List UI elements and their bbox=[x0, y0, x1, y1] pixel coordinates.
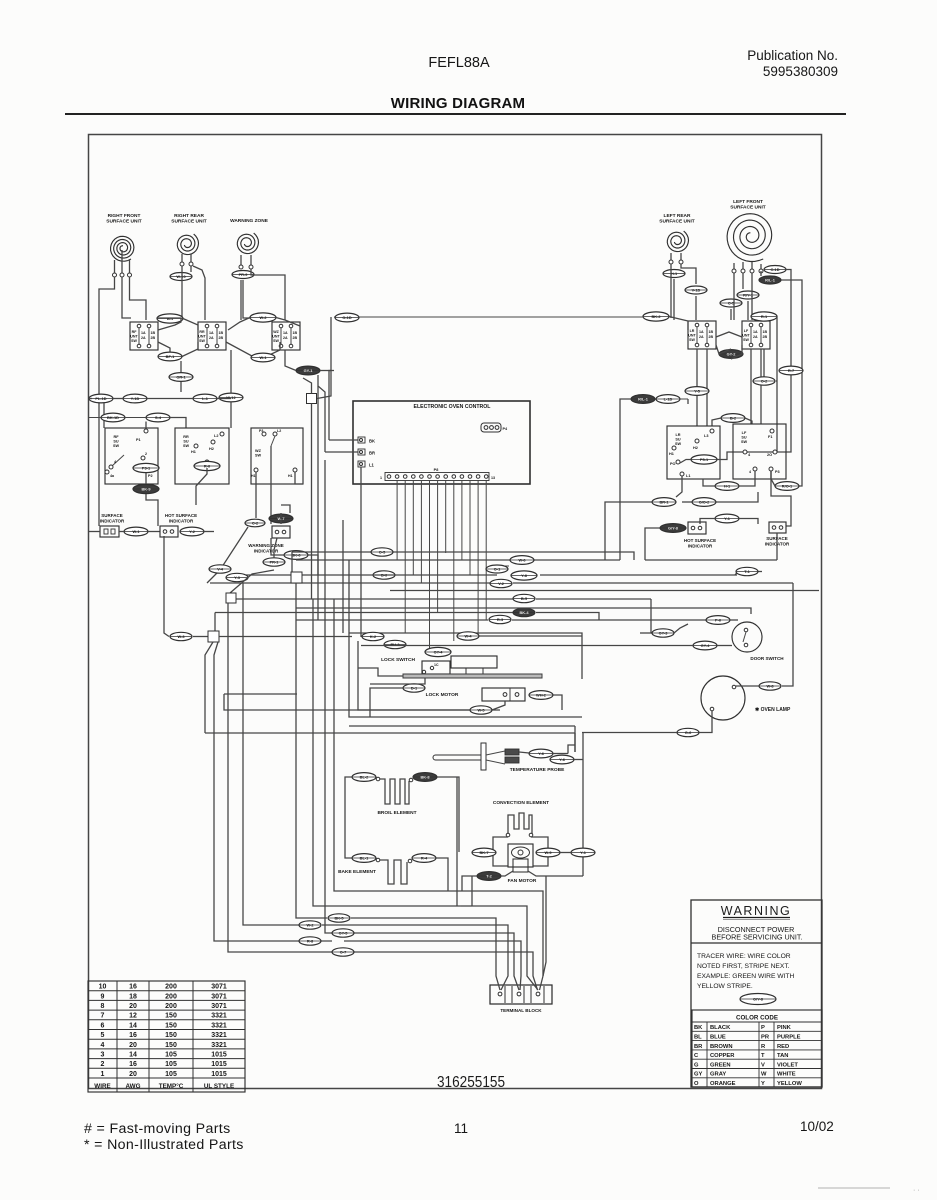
svg-text:OR-1: OR-1 bbox=[176, 375, 186, 380]
svg-text:L-1D: L-1D bbox=[664, 397, 673, 402]
svg-text:SW: SW bbox=[183, 444, 190, 448]
svg-text:L-1: L-1 bbox=[202, 396, 209, 401]
wire junction311 up bbox=[303, 378, 312, 394]
svg-text:G-1: G-1 bbox=[494, 567, 501, 572]
wire GO-2 path bbox=[682, 501, 692, 503]
EOC BK terminal bbox=[358, 437, 365, 443]
wire rhsi left bbox=[645, 528, 660, 560]
svg-text:SURFACE UNIT: SURFACE UNIT bbox=[106, 219, 142, 225]
svg-text:C-1D: C-1D bbox=[770, 267, 779, 272]
connector Y-6b bbox=[550, 755, 574, 764]
connector G-6 bbox=[677, 728, 699, 736]
svg-text:BROWN: BROWN bbox=[710, 1044, 733, 1050]
svg-text:R/L-1: R/L-1 bbox=[765, 278, 776, 283]
wire diag WZI-B bbox=[230, 570, 274, 593]
svg-text:BL-1: BL-1 bbox=[360, 856, 369, 861]
svg-text:200: 200 bbox=[165, 1003, 177, 1010]
svg-text:10: 10 bbox=[99, 984, 107, 991]
wire bowtie RR-WZ bottom bbox=[226, 342, 252, 358]
wire broil left bbox=[345, 777, 352, 851]
svg-text:1: 1 bbox=[101, 1071, 105, 1078]
svg-text:1B: 1B bbox=[293, 331, 298, 335]
svg-text:R-7: R-7 bbox=[788, 368, 794, 373]
wire lock motor bottom bbox=[492, 701, 505, 710]
RF SU SW label bbox=[113, 435, 120, 448]
svg-text:ELECTRONIC OVEN CONTROL: ELECTRONIC OVEN CONTROL bbox=[414, 404, 492, 410]
left rear surface unit label bbox=[659, 213, 695, 225]
svg-text:SURFACE: SURFACE bbox=[101, 513, 123, 518]
switch box RR SU SW bbox=[175, 428, 229, 484]
connector BK-7 bbox=[472, 848, 496, 857]
connector bottom row952 bbox=[332, 948, 354, 956]
svg-text:SU: SU bbox=[675, 438, 681, 442]
surface coil RF bbox=[111, 236, 134, 261]
svg-text:HOT SURFACE: HOT SURFACE bbox=[165, 513, 197, 518]
wire junction311 down bbox=[311, 404, 313, 600]
left front surface unit label bbox=[730, 199, 766, 211]
wire gauge table bbox=[88, 981, 245, 1092]
svg-text:11: 11 bbox=[454, 1121, 468, 1136]
svg-text:RF: RF bbox=[113, 435, 119, 439]
svg-text:BK-1D: BK-1D bbox=[107, 415, 119, 420]
connector C-2 bbox=[245, 519, 265, 527]
wire bowtie LR-LF bbox=[716, 332, 742, 337]
wire band h620 bbox=[296, 619, 488, 621]
svg-text:P5-1: P5-1 bbox=[700, 457, 709, 462]
svg-text:HOT SURFACE: HOT SURFACE bbox=[684, 538, 716, 543]
svg-text:RR: RR bbox=[199, 330, 205, 334]
fan motor body bbox=[508, 844, 533, 867]
svg-text:T: T bbox=[761, 1053, 765, 1059]
svg-text:Y-6: Y-6 bbox=[538, 751, 545, 756]
svg-text:V-1D: V-1D bbox=[692, 288, 701, 293]
connector W-6 row bbox=[510, 556, 534, 565]
svg-text:2B: 2B bbox=[709, 335, 714, 339]
wire v343 bbox=[342, 520, 344, 633]
connector D-1 bbox=[403, 684, 425, 692]
svg-text:150: 150 bbox=[165, 1022, 177, 1029]
convection element coil bbox=[508, 813, 532, 834]
connector PL-1D bbox=[89, 394, 113, 403]
svg-text:GY-2: GY-2 bbox=[727, 352, 737, 357]
lock switch body bbox=[422, 661, 450, 674]
svg-text:B-5: B-5 bbox=[521, 596, 528, 601]
wire WZ left down bbox=[240, 280, 242, 320]
svg-text:GY-3: GY-3 bbox=[659, 631, 669, 636]
svg-text:20: 20 bbox=[129, 1003, 137, 1010]
svg-text:D-1: D-1 bbox=[411, 686, 418, 691]
svg-text:GY-5: GY-5 bbox=[339, 931, 349, 936]
wire 575 corner bbox=[574, 733, 576, 752]
RF SU SW t2 bbox=[141, 456, 145, 460]
svg-text:P-6: P-6 bbox=[715, 618, 722, 623]
WZ SW contact bbox=[271, 436, 275, 446]
wire LF coil stems bbox=[734, 262, 761, 269]
svg-text:1A: 1A bbox=[699, 330, 704, 334]
svg-text:R-8: R-8 bbox=[307, 939, 314, 944]
svg-text:Y-5: Y-5 bbox=[694, 389, 701, 394]
WZ SW L2 bbox=[273, 432, 277, 436]
lock assembly outer wire2 bbox=[349, 633, 582, 717]
svg-text:BK-5: BK-5 bbox=[334, 916, 344, 921]
temperature probe flange bbox=[481, 743, 486, 770]
svg-text:SURFACE UNIT: SURFACE UNIT bbox=[659, 219, 695, 225]
svg-text:W-2: W-2 bbox=[259, 315, 267, 320]
svg-text:TEMP°C: TEMP°C bbox=[159, 1082, 184, 1090]
svg-text:P3-1: P3-1 bbox=[142, 466, 151, 471]
wire y417 rail bbox=[89, 417, 101, 419]
svg-text:WARNING: WARNING bbox=[721, 904, 791, 918]
connector Y-1D left bbox=[123, 394, 147, 403]
warning box bbox=[691, 900, 822, 1087]
wire band h733 bbox=[205, 732, 575, 734]
wire trunk v205 bbox=[205, 642, 213, 733]
svg-text:4: 4 bbox=[749, 470, 751, 474]
wire BK vert bbox=[329, 371, 331, 441]
wire RF terms down bbox=[99, 277, 146, 526]
infinite switch RF bbox=[130, 322, 158, 350]
svg-text:6: 6 bbox=[101, 1022, 105, 1029]
junction sq 230 bbox=[226, 593, 236, 603]
wire BK-9 stub bbox=[145, 473, 147, 484]
svg-text:BK-2: BK-2 bbox=[651, 314, 661, 319]
svg-text:14: 14 bbox=[129, 1022, 137, 1029]
svg-text:LEFT FRONT: LEFT FRONT bbox=[733, 199, 763, 205]
wire bowtie WZ top bbox=[228, 318, 250, 331]
wire LR sw down bbox=[697, 349, 707, 426]
connector B-1 row1 bbox=[157, 314, 183, 323]
svg-text:INDICATOR: INDICATOR bbox=[100, 518, 125, 523]
infinite switch WZ bbox=[272, 322, 300, 350]
EOC P8 pin strip bbox=[380, 473, 495, 481]
connector L-1 left bbox=[193, 394, 217, 403]
svg-text:UNT: UNT bbox=[742, 333, 750, 337]
wire bowtie WZ top2 bbox=[276, 318, 300, 327]
wire trunk v334 bbox=[334, 599, 448, 891]
surface indicator label bbox=[100, 513, 125, 523]
svg-text:G-6: G-6 bbox=[685, 730, 692, 735]
WZ SW H1a bbox=[254, 468, 258, 472]
wire h710 bbox=[224, 694, 470, 710]
svg-text:H-1: H-1 bbox=[671, 271, 678, 276]
svg-text:BEFORE SERVICING UNIT.: BEFORE SERVICING UNIT. bbox=[712, 933, 803, 942]
LF SU SW P3 bbox=[769, 467, 773, 471]
wire to EOC BK bbox=[329, 439, 358, 441]
connector Y-6a bbox=[529, 749, 553, 758]
svg-text:3071: 3071 bbox=[211, 1003, 227, 1010]
infinite switch RR bbox=[198, 322, 226, 350]
wire band h599 bbox=[236, 598, 513, 600]
svg-text:INDICATOR: INDICATOR bbox=[169, 518, 194, 523]
wire RR coil stems bbox=[182, 254, 191, 262]
svg-text:TAN: TAN bbox=[777, 1053, 788, 1059]
wire B-2 link bbox=[712, 418, 721, 426]
svg-text:2B: 2B bbox=[293, 336, 298, 340]
svg-text:Y-8: Y-8 bbox=[521, 573, 528, 578]
svg-text:W-8: W-8 bbox=[766, 684, 774, 689]
svg-text:R-4: R-4 bbox=[421, 856, 428, 861]
svg-text:FAN MOTOR: FAN MOTOR bbox=[508, 878, 537, 884]
svg-text:# = Fast-moving Parts: # = Fast-moving Parts bbox=[84, 1121, 231, 1137]
connector GY-2 dark bbox=[719, 350, 743, 359]
svg-text:VIOLET: VIOLET bbox=[777, 1062, 798, 1068]
svg-text:1: 1 bbox=[380, 476, 382, 480]
wire probe verts bbox=[574, 726, 576, 752]
svg-text:WZ: WZ bbox=[273, 330, 279, 334]
svg-text:W-9: W-9 bbox=[544, 850, 552, 855]
connector bottom row925 bbox=[299, 921, 321, 929]
svg-text:1015: 1015 bbox=[211, 1052, 227, 1059]
wire door right vert bbox=[782, 583, 793, 686]
wire trunk v243 bbox=[243, 583, 310, 925]
svg-text:SW: SW bbox=[743, 338, 749, 342]
wire dark pair left bbox=[620, 399, 631, 560]
svg-text:2A: 2A bbox=[141, 336, 146, 340]
broil element coil bbox=[380, 779, 409, 804]
wire 651 corner bbox=[650, 599, 652, 633]
hot surface indicator label bbox=[165, 513, 197, 523]
svg-text:PURPLE: PURPLE bbox=[777, 1035, 801, 1041]
svg-text:W-4: W-4 bbox=[464, 634, 472, 639]
LF SU SW 4b bbox=[753, 467, 757, 471]
svg-text:TRACER WIRE: WIRE COLOR: TRACER WIRE: WIRE COLOR bbox=[697, 953, 791, 960]
wire P-6 link bbox=[730, 619, 738, 621]
wire LF sw down bbox=[751, 349, 761, 424]
wire lock left bbox=[358, 668, 403, 676]
wire W-12 vert bbox=[230, 350, 232, 393]
svg-text:LR: LR bbox=[690, 329, 695, 333]
svg-text:9: 9 bbox=[101, 993, 105, 1000]
svg-text:F1: F1 bbox=[768, 435, 772, 439]
connector BK-8 dark bbox=[413, 773, 437, 782]
surface coil WZ bbox=[237, 233, 258, 254]
connector BK-4 dark row612 bbox=[513, 608, 535, 616]
svg-text:Y-1: Y-1 bbox=[580, 850, 587, 855]
svg-text:H1: H1 bbox=[288, 474, 293, 478]
switch box WZ SW bbox=[251, 428, 303, 484]
LR SU SW H1 bbox=[672, 446, 676, 450]
svg-text:2A: 2A bbox=[753, 335, 758, 339]
svg-text:W-12: W-12 bbox=[226, 395, 236, 400]
connector W-3 row636 bbox=[170, 632, 192, 640]
svg-text:H-1: H-1 bbox=[724, 484, 731, 489]
wire band h575 bbox=[246, 574, 497, 576]
connector BR-1 bbox=[652, 498, 676, 507]
connector GY-1 dark bbox=[296, 366, 320, 375]
wire L1 down bbox=[676, 476, 682, 497]
svg-text:P8: P8 bbox=[434, 468, 439, 472]
connector bottom row933 bbox=[332, 929, 354, 937]
connector R-1 row1 bbox=[751, 312, 777, 321]
connector W-12 bbox=[219, 393, 243, 402]
wire band h590 bbox=[390, 590, 819, 592]
connector P-6 bbox=[706, 616, 730, 625]
svg-text:R-1: R-1 bbox=[761, 314, 768, 319]
svg-text:O-5: O-5 bbox=[379, 550, 386, 555]
svg-text:105: 105 bbox=[165, 1061, 177, 1068]
WZ SW H1b bbox=[293, 468, 297, 472]
lock slide bar bbox=[403, 674, 542, 678]
connector W-8 bbox=[759, 682, 781, 690]
wire fan bottom bbox=[501, 871, 513, 876]
footer stray marks bbox=[818, 1187, 890, 1189]
wire hot ind tail bbox=[204, 531, 214, 533]
connector S-4 bbox=[146, 413, 170, 422]
svg-text:GRAY: GRAY bbox=[710, 1072, 726, 1078]
connector GY-4b bbox=[693, 641, 717, 650]
wire bottom h906 bbox=[461, 905, 472, 907]
svg-text:1B: 1B bbox=[151, 331, 156, 335]
connector O-2r bbox=[753, 377, 775, 385]
convection terminals bbox=[506, 833, 510, 837]
connector BL-2 bbox=[352, 773, 376, 782]
svg-text:200: 200 bbox=[165, 993, 177, 1000]
WZ SW label bbox=[255, 449, 262, 458]
surface coil LR bbox=[667, 231, 688, 252]
svg-text:W: W bbox=[761, 1072, 767, 1078]
wire ind left bbox=[89, 531, 100, 533]
svg-text:WZ: WZ bbox=[255, 449, 262, 453]
wire bottom h933 bbox=[344, 933, 514, 962]
connector B-5 row599 bbox=[513, 594, 535, 602]
svg-text:RF: RF bbox=[132, 330, 138, 334]
wire C-5 down bbox=[730, 309, 732, 320]
svg-text:14: 14 bbox=[129, 1052, 137, 1059]
svg-text:SW: SW bbox=[741, 440, 748, 444]
wire long rail y317 bbox=[334, 316, 643, 318]
connector row552 bbox=[371, 548, 393, 556]
RR SU SW L2 bbox=[220, 432, 224, 436]
wire OR-1 vert bbox=[180, 361, 182, 372]
svg-text:200: 200 bbox=[165, 984, 177, 991]
bake element coil bbox=[380, 860, 407, 884]
WZ SW P3 bbox=[262, 432, 266, 436]
svg-text:WIRING DIAGRAM: WIRING DIAGRAM bbox=[391, 95, 525, 112]
svg-text:2: 2 bbox=[145, 452, 147, 456]
right surface indicator label bbox=[765, 536, 790, 546]
svg-text:1A: 1A bbox=[753, 330, 758, 334]
RR SU SW L1 bbox=[205, 460, 209, 464]
broil terminals bbox=[376, 777, 380, 781]
wire fan links bbox=[560, 852, 572, 854]
switch box LF SU SW bbox=[733, 424, 786, 479]
svg-text:R/L-1: R/L-1 bbox=[638, 397, 649, 402]
svg-text:W-1: W-1 bbox=[132, 529, 140, 534]
RR SU SW H2 bbox=[211, 440, 215, 444]
terminal block body bbox=[490, 985, 552, 1004]
svg-text:SU: SU bbox=[113, 440, 119, 444]
wire bake right bbox=[436, 858, 448, 891]
wire H1b bbox=[703, 479, 715, 486]
svg-text:EXAMPLE: GREEN WIRE WITH: EXAMPLE: GREEN WIRE WITH bbox=[697, 973, 795, 980]
svg-text:SU: SU bbox=[183, 440, 189, 444]
svg-text:BK: BK bbox=[369, 439, 375, 444]
svg-text:1A: 1A bbox=[141, 331, 146, 335]
wire BR vert bbox=[318, 375, 325, 452]
EOC L1 terminal bbox=[358, 461, 365, 467]
svg-text:GY-4: GY-4 bbox=[701, 643, 711, 648]
svg-text:C: C bbox=[694, 1053, 699, 1059]
connector V-1D bbox=[685, 286, 707, 294]
connector R/L-1 bbox=[759, 276, 781, 284]
switch box LR SU SW bbox=[667, 426, 720, 479]
svg-text:8: 8 bbox=[101, 1003, 105, 1010]
wire LR terms down bbox=[671, 264, 696, 318]
connector bottom row918 bbox=[328, 914, 350, 922]
connector BK-9 dark bbox=[133, 484, 159, 493]
svg-text:WHITE: WHITE bbox=[777, 1072, 796, 1078]
wire HSI drop bbox=[164, 536, 169, 637]
svg-text:3071: 3071 bbox=[211, 984, 227, 991]
svg-text:H1: H1 bbox=[669, 452, 674, 456]
wire trunk v313 bbox=[313, 599, 461, 906]
wire bottom h918 bbox=[351, 918, 496, 962]
svg-text:H1: H1 bbox=[251, 474, 256, 478]
wire rsi down bbox=[776, 533, 778, 560]
EOC BR terminal bbox=[358, 449, 365, 455]
wire bake left bbox=[345, 851, 352, 858]
diagram border bbox=[89, 135, 822, 1089]
svg-text:P: P bbox=[761, 1025, 765, 1031]
wire bottom h891 bbox=[448, 891, 543, 976]
svg-text:2O: 2O bbox=[767, 453, 772, 457]
LF SU SW 2O bbox=[773, 450, 777, 454]
lock assembly outer wire bbox=[349, 633, 582, 679]
connector PR-1 bbox=[263, 558, 285, 566]
LF SU SW t4 bbox=[743, 450, 747, 454]
svg-text:Publication No.: Publication No. bbox=[747, 48, 838, 63]
right surface indicator lamp bbox=[769, 522, 786, 533]
junction square 311 bbox=[307, 394, 317, 404]
connector BK-2 mid bbox=[643, 312, 669, 321]
svg-text:G: G bbox=[694, 1062, 699, 1068]
warning zone indicator lamp bbox=[272, 526, 290, 538]
svg-text:O: O bbox=[694, 1081, 699, 1087]
wire bottom h925 bbox=[322, 925, 508, 962]
right hot surface indicator lamp bbox=[688, 522, 706, 534]
wire trunk v228 bbox=[228, 603, 332, 952]
temperature probe taper bbox=[486, 751, 505, 755]
svg-text:INDICATOR: INDICATOR bbox=[688, 543, 713, 548]
svg-text:W-5: W-5 bbox=[477, 708, 485, 713]
svg-text:C-2: C-2 bbox=[252, 521, 259, 526]
svg-text:W-1: W-1 bbox=[259, 355, 267, 360]
connector H-1b bbox=[715, 482, 739, 491]
wire gy4b rail left bbox=[361, 645, 581, 647]
infinite switch LR bbox=[688, 321, 716, 349]
svg-text:O-2: O-2 bbox=[761, 379, 768, 384]
connector C-5 bbox=[720, 299, 742, 307]
svg-text:2B: 2B bbox=[763, 335, 768, 339]
svg-text:BLACK: BLACK bbox=[710, 1025, 731, 1031]
door switch body bbox=[732, 622, 762, 652]
connector R-7 bbox=[779, 366, 803, 375]
svg-text:LR: LR bbox=[675, 433, 680, 437]
svg-text:L1: L1 bbox=[369, 463, 375, 468]
svg-text:SW: SW bbox=[273, 339, 279, 343]
svg-text:* = Non-Illustrated Parts: * = Non-Illustrated Parts bbox=[84, 1137, 244, 1153]
svg-text:H1: H1 bbox=[191, 450, 196, 454]
svg-text:O-1D: O-1D bbox=[342, 315, 351, 320]
svg-text:SW: SW bbox=[131, 339, 137, 343]
svg-text:R/O-1: R/O-1 bbox=[782, 484, 793, 489]
connector W-1b bbox=[251, 353, 275, 362]
svg-text:· ·: · · bbox=[913, 1187, 920, 1194]
svg-text:BR-1: BR-1 bbox=[659, 500, 669, 505]
svg-text:DOOR SWITCH: DOOR SWITCH bbox=[750, 656, 784, 661]
warning zone ind dark oval W-7 bbox=[269, 514, 293, 523]
wire bottom h941 bbox=[344, 941, 521, 962]
